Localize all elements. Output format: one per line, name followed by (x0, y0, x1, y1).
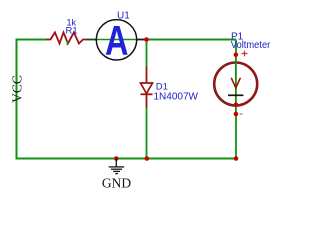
voltmeter P1 plus mark (242, 51, 248, 57)
ammeter U1 body (96, 20, 136, 60)
svg-text:A: A (105, 17, 129, 64)
svg-text:Voltmeter: Voltmeter (231, 40, 271, 51)
voltmeter P1 bottom terminal dot (234, 112, 239, 117)
diode D1 cathode bar (141, 93, 153, 95)
voltmeter P1 arrow head (231, 78, 240, 88)
diode D1 anode pin (146, 67, 148, 84)
svg-text:R1: R1 (66, 25, 78, 36)
diode D1 triangle (141, 83, 153, 94)
wire top rail right segment (147, 39, 237, 41)
wire voltmeter branch lower (235, 114, 237, 159)
wire left rail vertical (16, 39, 18, 160)
wire voltmeter drop from top rail (235, 40, 237, 56)
wire diode branch lower (146, 107, 148, 159)
voltmeter P1 reference bar (228, 94, 243, 96)
junction dot diode branch / bottom rail (145, 156, 150, 161)
svg-text:VCC: VCC (9, 75, 24, 103)
wire diode branch upper (146, 40, 148, 68)
junction dot top rail / diode branch (144, 37, 149, 42)
wire through voltmeter (235, 55, 237, 115)
voltmeter P1 bottom body pin dot (234, 103, 239, 108)
ammeter U1 right pin (137, 39, 147, 41)
ground (109, 159, 125, 174)
resistor R1 (47, 32, 87, 43)
junction dot ground (114, 156, 119, 161)
resistor R1 pin tick (66, 41, 68, 46)
voltmeter P1 top pin dot (234, 53, 239, 58)
voltmeter P1 body (214, 63, 257, 106)
svg-text:1N4007W: 1N4007W (154, 91, 199, 102)
ammeter U1 left pin (87, 39, 98, 41)
wire bottom rail (17, 158, 237, 160)
svg-text:U1: U1 (117, 11, 130, 22)
svg-text:GND: GND (102, 176, 131, 191)
wire through ammeter (97, 39, 136, 41)
wire top rail left segment (17, 39, 48, 41)
voltmeter P1 minus mark (240, 113, 243, 115)
diode D1 cathode pin (146, 94, 148, 107)
junction dot voltmeter branch / bottom rail (234, 156, 239, 161)
